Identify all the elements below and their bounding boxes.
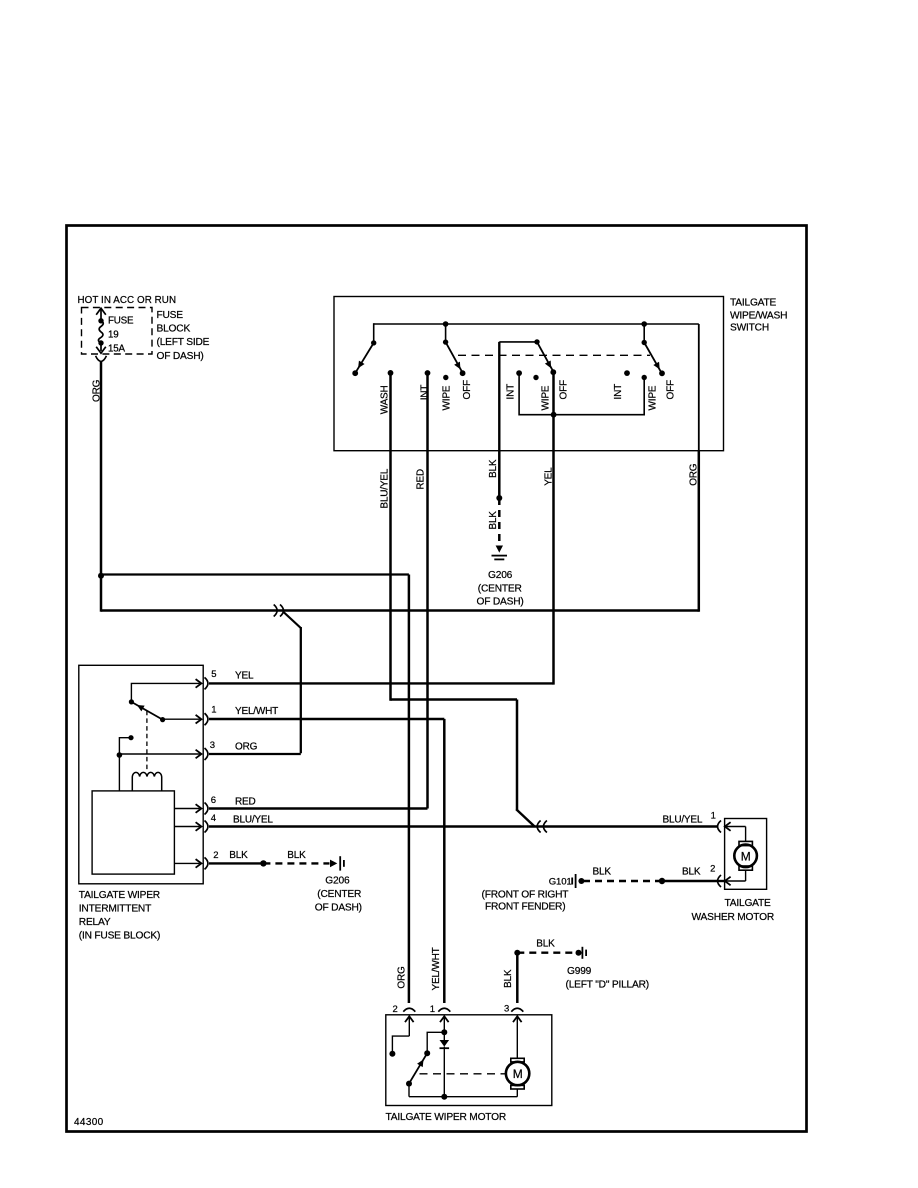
svg-text:(CENTER: (CENTER (478, 583, 522, 594)
svg-text:OF DASH): OF DASH) (315, 902, 362, 913)
svg-text:FRONT FENDER): FRONT FENDER) (485, 902, 565, 913)
svg-text:ORG: ORG (396, 966, 407, 989)
svg-text:(FRONT OF RIGHT: (FRONT OF RIGHT (482, 890, 569, 901)
svg-text:BLU/YEL: BLU/YEL (233, 814, 273, 825)
svg-text:M: M (513, 1067, 523, 1081)
svg-text:6: 6 (211, 795, 216, 806)
svg-text:WIPE: WIPE (441, 385, 452, 410)
svg-text:HOT IN ACC OR RUN: HOT IN ACC OR RUN (78, 295, 177, 306)
svg-text:ORG: ORG (688, 463, 699, 486)
svg-text:1: 1 (211, 705, 216, 716)
svg-text:YEL/WHT: YEL/WHT (431, 947, 442, 990)
svg-text:ORG: ORG (235, 742, 258, 753)
svg-text:5: 5 (211, 669, 216, 680)
svg-text:BLK: BLK (593, 867, 612, 878)
svg-text:WASHER MOTOR: WASHER MOTOR (692, 912, 775, 923)
svg-text:BLK: BLK (682, 867, 701, 878)
svg-text:OFF: OFF (558, 380, 569, 399)
svg-text:BLOCK: BLOCK (157, 324, 191, 335)
svg-text:OF DASH): OF DASH) (157, 351, 204, 362)
svg-text:4: 4 (211, 813, 216, 824)
svg-text:INT: INT (613, 384, 624, 400)
svg-text:3: 3 (210, 740, 215, 751)
svg-text:FUSE: FUSE (157, 310, 184, 321)
svg-text:ORG: ORG (92, 379, 103, 402)
svg-text:G101: G101 (549, 876, 572, 887)
svg-text:1: 1 (430, 1004, 435, 1015)
svg-text:INTERMITTENT: INTERMITTENT (79, 904, 151, 915)
svg-text:2: 2 (710, 864, 715, 875)
svg-text:WIPE/WASH: WIPE/WASH (730, 310, 787, 321)
svg-text:YEL/WHT: YEL/WHT (235, 706, 278, 717)
svg-text:FUSE: FUSE (108, 316, 134, 327)
svg-text:RELAY: RELAY (79, 917, 111, 928)
svg-text:2: 2 (213, 850, 218, 861)
svg-text:TAILGATE WIPER MOTOR: TAILGATE WIPER MOTOR (386, 1112, 507, 1123)
svg-text:RED: RED (415, 469, 426, 490)
svg-text:3: 3 (504, 1004, 509, 1015)
svg-text:BLK: BLK (287, 850, 306, 861)
svg-text:SWITCH: SWITCH (730, 323, 769, 334)
svg-text:WIPE: WIPE (540, 385, 551, 410)
svg-text:TAILGATE: TAILGATE (730, 298, 777, 309)
svg-text:BLK: BLK (229, 850, 248, 861)
svg-text:G206: G206 (325, 876, 350, 887)
svg-text:BLK: BLK (503, 969, 514, 988)
svg-text:19: 19 (108, 330, 119, 341)
svg-text:TAILGATE: TAILGATE (725, 898, 772, 909)
svg-text:44300: 44300 (74, 1117, 104, 1128)
svg-text:WIPE: WIPE (647, 385, 658, 410)
svg-text:(CENTER: (CENTER (317, 889, 361, 900)
svg-text:OFF: OFF (665, 380, 676, 399)
svg-text:TAILGATE WIPER: TAILGATE WIPER (79, 890, 160, 901)
svg-text:(IN FUSE BLOCK): (IN FUSE BLOCK) (79, 930, 160, 941)
svg-text:YEL: YEL (543, 467, 554, 486)
svg-text:YEL: YEL (235, 671, 254, 682)
svg-text:M: M (741, 849, 751, 863)
svg-text:RED: RED (235, 796, 256, 807)
svg-text:WASH: WASH (379, 385, 390, 414)
svg-text:BLK: BLK (488, 459, 499, 478)
svg-text:1: 1 (711, 810, 716, 821)
svg-text:G206: G206 (488, 570, 513, 581)
svg-text:BLU/YEL: BLU/YEL (663, 814, 703, 825)
svg-text:BLK: BLK (488, 511, 499, 530)
svg-text:(LEFT "D" PILLAR): (LEFT "D" PILLAR) (566, 980, 649, 991)
svg-text:G999: G999 (567, 966, 592, 977)
svg-text:BLU/YEL: BLU/YEL (380, 468, 391, 508)
svg-text:BLK: BLK (536, 939, 555, 950)
svg-text:2: 2 (393, 1004, 398, 1015)
svg-text:OFF: OFF (462, 380, 473, 399)
svg-text:(LEFT SIDE: (LEFT SIDE (157, 337, 210, 348)
svg-text:INT: INT (506, 384, 517, 400)
svg-text:OF DASH): OF DASH) (477, 597, 524, 608)
svg-text:15A: 15A (108, 344, 125, 355)
